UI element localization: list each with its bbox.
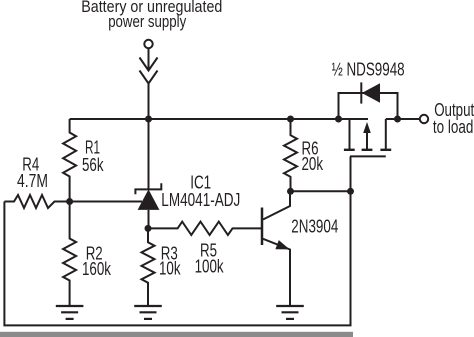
node: MOSFET drain / diode junction [394,116,401,123]
node: R6 top junction [287,116,294,123]
IC1 LM4041-ADJ shunt reference (zener) triangle [138,189,160,210]
resistor R3 [142,228,155,306]
svg-text:20k: 20k [302,154,324,174]
transistor Q1 drain lead [385,119,387,150]
IC1 cathode bar with bent ends [135,183,161,194]
wire: gate lead down [350,156,352,191]
ground G2 [134,306,162,319]
transistor Q2 emitter arrow [275,240,289,249]
wire: top rail drain segment to output [386,118,420,120]
ground G3 [276,306,304,319]
wire: top rail from R1 to MOSFET body tie [70,118,368,120]
svg-text:LM4041-ADJ: LM4041-ADJ [161,190,240,210]
node: R6 bottom / collector junction [287,188,294,195]
wire: IC1 anode down [148,210,150,229]
transistor Q1 body lead [366,132,368,150]
resistor R5 [148,222,262,235]
supply arrow chevron 1 [140,58,158,71]
transistor Q1 body arrow [363,122,371,133]
diode D1 cathode bar [360,82,362,103]
wire: collector row to gate riser [291,190,351,192]
supply input terminal circle [144,40,152,48]
svg-text:100k: 100k [195,256,225,276]
transistor Q1 source contact bar [344,149,355,151]
wire: IC1 cathode from top rail [148,119,150,189]
resistor R1 [63,119,76,202]
node: supply junction [145,116,152,123]
node: gate junction [347,188,354,195]
svg-text:2N3904: 2N3904 [291,217,338,237]
decorative bottom gray band [0,332,353,337]
transistor Q1 gate plate [350,155,386,157]
node: MOSFET source / diode junction [335,116,342,123]
resistor R4 [4,195,69,208]
transistor Q2 collector lead [263,191,290,219]
wire: supply drop to top rail [148,48,150,119]
ground G1 [56,306,84,319]
wire: body diode loop [339,93,398,119]
svg-text:½ NDS9948: ½ NDS9948 [332,60,405,80]
svg-text:56k: 56k [82,155,104,175]
svg-text:to load: to load [433,117,474,137]
svg-text:10k: 10k [159,259,181,279]
resistor R2 [63,202,76,307]
transistor Q1 MOSFET 1/2 NDS9948 source lead [349,119,351,150]
supply arrow chevron 2 [140,71,158,84]
wire: left rail, bottom rail, gate riser [4,191,350,325]
transistor Q1 body contact bar [362,149,373,151]
node: R1/R2/R4 junction [66,198,73,205]
output terminal circle [420,115,428,123]
node: IC1 anode / R3 / R5 junction [145,225,152,232]
transistor Q1 drain contact bar [380,149,391,151]
svg-text:power supply: power supply [108,12,186,31]
resistor R6 [284,119,297,191]
diode D1 triangle [362,83,380,102]
transistor Q2 2N3904 base bar [261,208,264,246]
svg-text:160k: 160k [82,259,112,279]
transistor Q2 emitter lead [263,239,290,306]
wire: feedback node to IC1 adj [70,201,142,203]
svg-text:4.7M: 4.7M [17,171,48,191]
